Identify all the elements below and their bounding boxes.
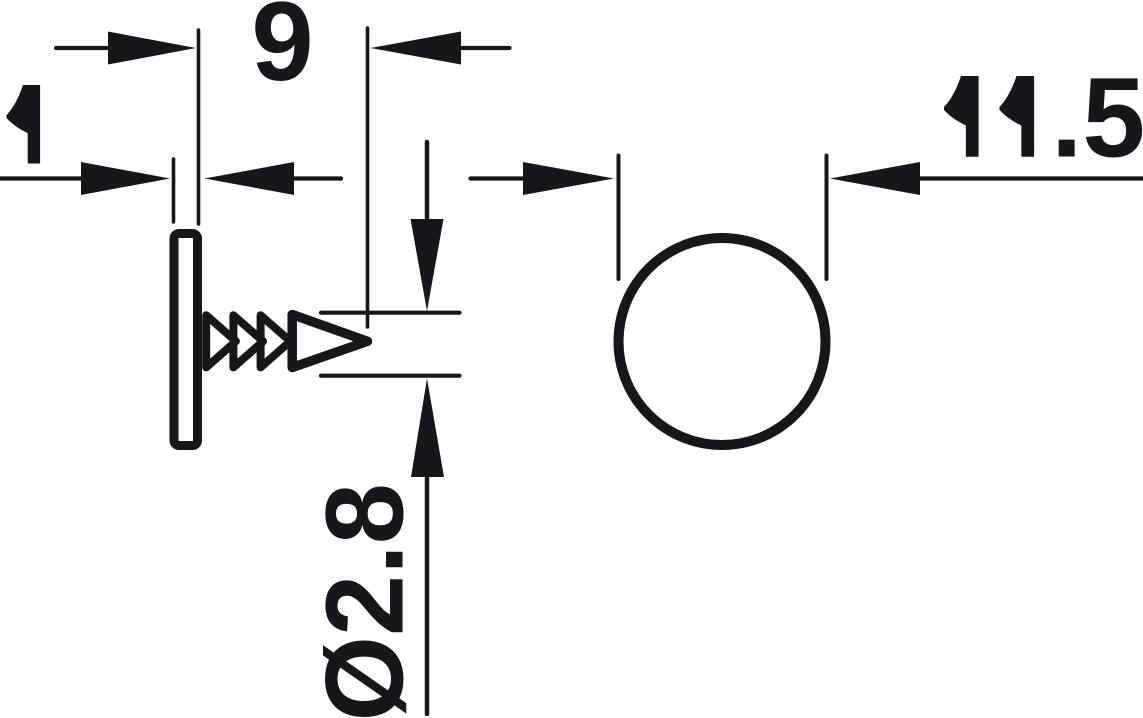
extension line right of dim 9 xyxy=(366,28,370,327)
dim 1 left arrowhead xyxy=(81,162,170,195)
dim 2.8 down arrow stem xyxy=(425,142,430,226)
svg-text:Ø2.8: Ø2.8 xyxy=(304,483,427,718)
extension tick left of dim 1 xyxy=(172,159,176,222)
dim 11.5 right arrow line xyxy=(917,176,1143,180)
dim 2.8 bottom line xyxy=(321,374,460,378)
dim 2.8 down arrowhead xyxy=(411,219,444,311)
dim 1 right arrowhead xyxy=(205,162,295,195)
extension tick right of circle (11.5) xyxy=(825,156,829,280)
dim 1 left arrow line xyxy=(0,176,85,180)
extension tick left of circle (11.5) xyxy=(617,156,621,280)
screw tip xyxy=(292,315,367,368)
dim label 11.5 : digit 1 xyxy=(944,76,979,157)
dim 2.8 up arrow stem xyxy=(425,473,430,714)
extension line between dims 1 and 9 xyxy=(197,30,201,224)
dim 1 right arrow line xyxy=(291,176,341,180)
circle (magnet face view) xyxy=(619,238,826,445)
screw thread 2 xyxy=(233,315,263,367)
dim 11.5 left arrowhead xyxy=(523,162,614,195)
dim 9 right arrow line xyxy=(458,46,510,50)
dim label 1 xyxy=(7,85,41,164)
screw thread 3 xyxy=(261,315,291,367)
screw thread 1 xyxy=(206,315,236,367)
dim label 11.5 : digit 1 (second) xyxy=(1000,76,1035,157)
dim 2.8 up arrowhead xyxy=(411,379,444,478)
dim 11.5 left arrow line xyxy=(471,176,528,180)
svg-text:9: 9 xyxy=(251,0,313,104)
dim 9 left arrow line xyxy=(56,46,112,50)
dim 11.5 right arrowhead xyxy=(830,162,920,195)
mounting plate xyxy=(174,234,198,446)
dim 9 left arrowhead xyxy=(108,32,196,65)
dim 9 right arrowhead xyxy=(371,32,462,65)
dim 2.8 top line xyxy=(321,311,460,315)
svg-text:.5: .5 xyxy=(1051,55,1143,181)
